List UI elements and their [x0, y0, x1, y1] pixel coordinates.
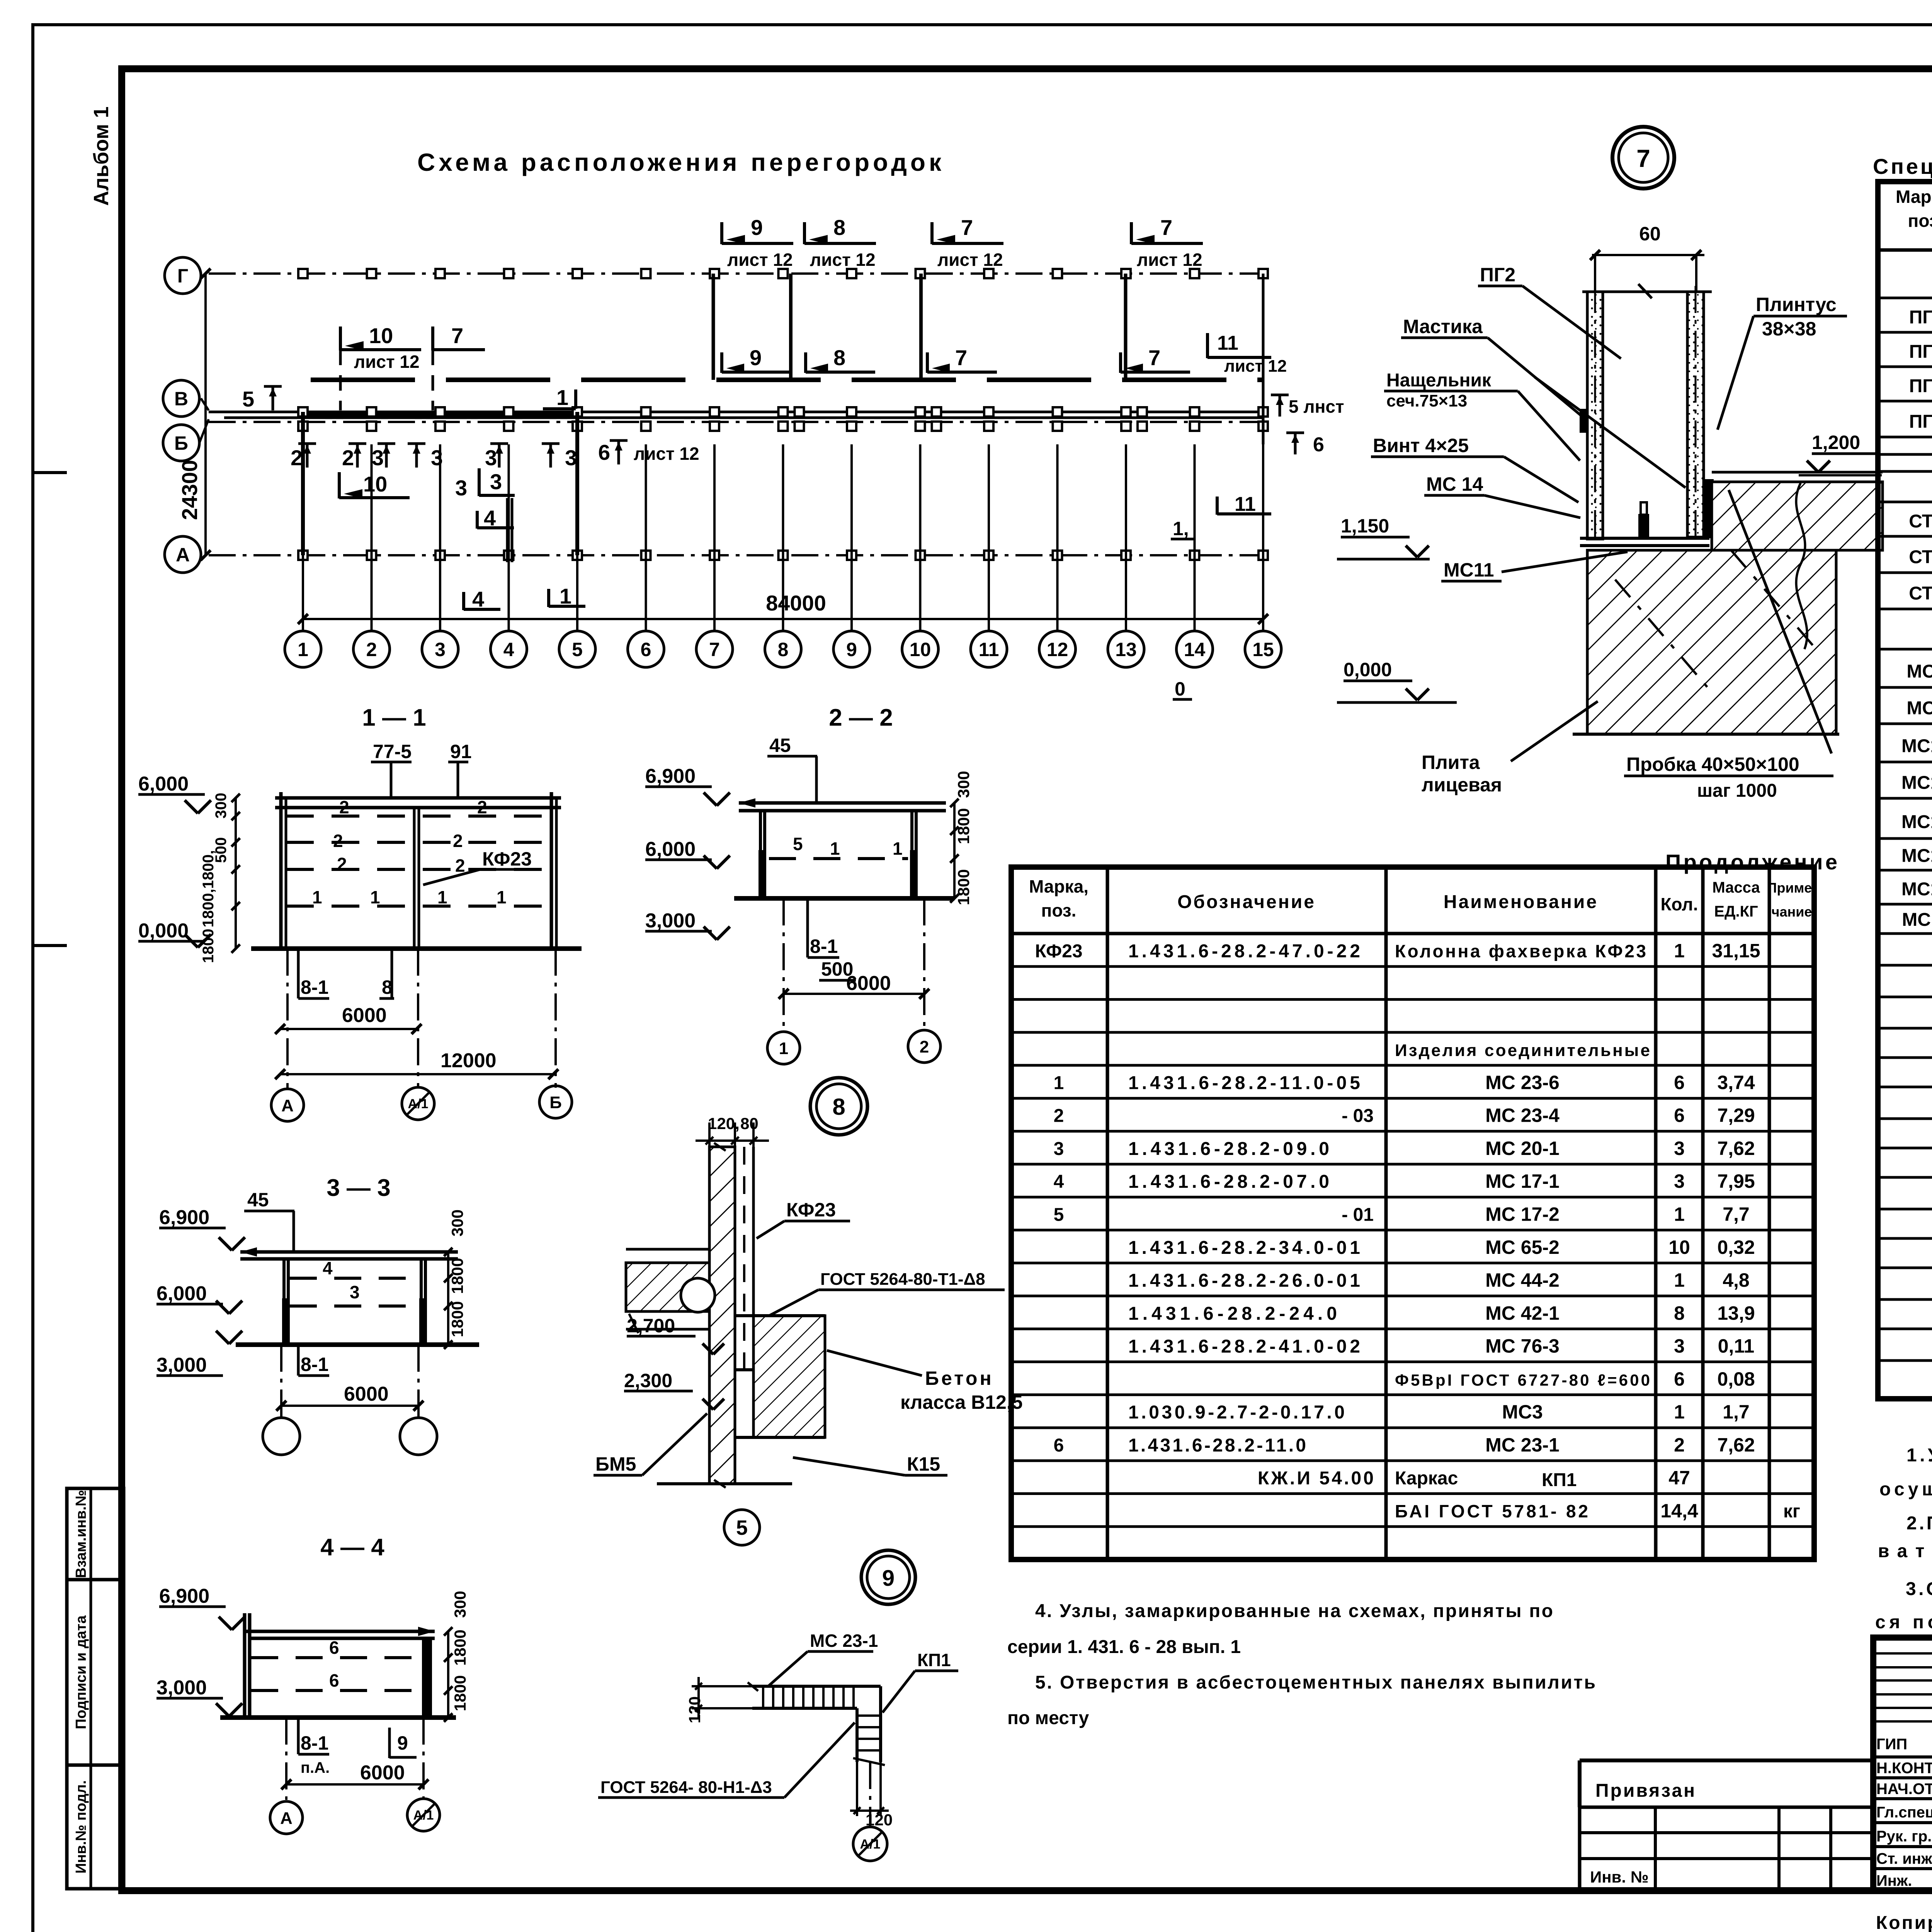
svg-text:Бетон: Бетон	[925, 1367, 994, 1389]
svg-text:1,: 1,	[1173, 518, 1189, 539]
svg-text:МС18: МС18	[1901, 879, 1932, 900]
svg-text:1: 1	[779, 1039, 788, 1058]
svg-text:КП1: КП1	[1542, 1470, 1577, 1490]
svg-text:4: 4	[323, 1258, 333, 1278]
svg-text:1800: 1800	[451, 1629, 469, 1665]
svg-text:3 — 3: 3 — 3	[327, 1175, 390, 1201]
svg-text:7,29: 7,29	[1717, 1105, 1755, 1126]
svg-text:9: 9	[882, 1566, 895, 1591]
svg-text:8: 8	[833, 345, 845, 370]
svg-text:4,8: 4,8	[1723, 1269, 1750, 1291]
svg-text:шаг 1000: шаг 1000	[1697, 781, 1777, 801]
svg-text:МС 23-6: МС 23-6	[1485, 1071, 1560, 1093]
svg-text:7: 7	[1636, 145, 1650, 172]
svg-text:10: 10	[1668, 1236, 1690, 1258]
svg-text:6: 6	[1054, 1435, 1064, 1456]
svg-text:МС16: МС16	[1901, 812, 1932, 832]
svg-text:А: А	[176, 544, 190, 566]
svg-text:2: 2	[366, 639, 377, 660]
svg-text:300: 300	[213, 793, 230, 819]
svg-text:3: 3	[1054, 1139, 1064, 1159]
svg-text:6: 6	[1313, 434, 1324, 456]
svg-text:4: 4	[1054, 1172, 1064, 1192]
svg-text:Мастика: Мастика	[1403, 316, 1483, 337]
svg-text:Винт 4×25: Винт 4×25	[1373, 435, 1469, 456]
svg-text:1: 1	[893, 838, 903, 859]
svg-text:Привязан: Привязан	[1595, 1781, 1696, 1801]
svg-text:1,200: 1,200	[1812, 432, 1860, 453]
svg-text:24300: 24300	[177, 460, 202, 520]
svg-text:КФ23: КФ23	[786, 1199, 836, 1221]
svg-text:7,62: 7,62	[1717, 1138, 1755, 1159]
svg-text:7,7: 7,7	[1723, 1203, 1750, 1225]
svg-text:поз.: поз.	[1041, 900, 1077, 920]
svg-text:лист 12: лист 12	[937, 250, 1003, 270]
svg-text:5: 5	[572, 639, 583, 660]
svg-text:1.431.6-28.2-24.0: 1.431.6-28.2-24.0	[1128, 1303, 1337, 1324]
svg-text:Схема расположения перегородок: Схема расположения перегородок	[417, 148, 947, 176]
svg-text:1: 1	[437, 887, 447, 907]
svg-text:10: 10	[363, 472, 387, 496]
svg-text:Обозначение: Обозначение	[1177, 892, 1316, 912]
svg-text:МС17: МС17	[1901, 846, 1932, 866]
svg-text:6,900: 6,900	[159, 1206, 209, 1229]
svg-text:2,700: 2,700	[627, 1315, 675, 1337]
svg-text:0,000: 0,000	[138, 920, 189, 942]
svg-text:7: 7	[709, 639, 720, 660]
svg-text:10: 10	[369, 323, 393, 348]
svg-text:14: 14	[1184, 639, 1206, 660]
svg-text:6000: 6000	[344, 1383, 389, 1405]
svg-text:1: 1	[1674, 1269, 1685, 1291]
svg-text:0: 0	[1175, 678, 1185, 700]
svg-text:80: 80	[740, 1114, 759, 1133]
svg-text:1: 1	[370, 887, 380, 907]
svg-text:13,9: 13,9	[1717, 1302, 1755, 1324]
svg-text:Спецификация элементов к схема: Спецификация элементов к схемам располож…	[1873, 154, 1932, 179]
svg-text:лист 12: лист 12	[1137, 250, 1202, 270]
svg-text:НАЧ.ОТД: НАЧ.ОТД	[1876, 1781, 1932, 1798]
svg-text:2: 2	[333, 831, 343, 851]
svg-text:по месту: по месту	[1007, 1708, 1089, 1728]
svg-text:5. Отверстия в асбестоцемент: 5. Отверстия в асбестоцементных панелях …	[1035, 1672, 1595, 1693]
svg-text:МС 17-1: МС 17-1	[1485, 1170, 1560, 1192]
svg-text:лист 12: лист 12	[1224, 357, 1287, 376]
svg-text:МС 44-2: МС 44-2	[1485, 1269, 1560, 1291]
svg-text:МС 20-1: МС 20-1	[1485, 1138, 1560, 1159]
svg-text:6,000: 6,000	[138, 773, 189, 795]
svg-text:2: 2	[1054, 1106, 1064, 1126]
svg-text:МС9: МС9	[1906, 698, 1932, 719]
svg-text:МС 76-3: МС 76-3	[1485, 1335, 1560, 1357]
svg-text:7: 7	[955, 345, 967, 370]
svg-text:7,95: 7,95	[1717, 1170, 1755, 1192]
svg-text:ГОСТ 5264-80-Т1-Δ8: ГОСТ 5264-80-Т1-Δ8	[820, 1270, 985, 1289]
svg-text:МС14: МС14	[1901, 736, 1932, 756]
svg-text:77-5: 77-5	[373, 741, 412, 762]
svg-text:поз.: поз.	[1908, 211, 1932, 231]
svg-text:300: 300	[954, 771, 973, 798]
svg-text:2: 2	[337, 854, 347, 874]
svg-text:4 — 4: 4 — 4	[320, 1534, 384, 1561]
svg-text:Каркас: Каркас	[1395, 1468, 1458, 1489]
svg-text:9: 9	[397, 1732, 408, 1754]
svg-text:13: 13	[1115, 639, 1137, 660]
svg-text:9: 9	[846, 639, 857, 660]
svg-text:6: 6	[1674, 1105, 1685, 1126]
svg-text:1800,: 1800,	[200, 850, 217, 889]
svg-text:12: 12	[1047, 639, 1068, 660]
svg-text:ПГ2: ПГ2	[1480, 264, 1515, 286]
svg-text:МС 23-1: МС 23-1	[1485, 1434, 1560, 1456]
svg-text:- 01: - 01	[1342, 1204, 1374, 1225]
svg-text:45: 45	[247, 1189, 269, 1211]
svg-text:ватными плитами по ГОСТ: ватными плитами по ГОСТ 9573- 82.	[1878, 1541, 1932, 1561]
svg-text:1,150: 1,150	[1341, 515, 1389, 537]
svg-text:6: 6	[329, 1638, 339, 1658]
svg-text:60: 60	[1639, 223, 1661, 245]
svg-text:3: 3	[431, 446, 443, 470]
svg-text:1800,: 1800,	[200, 889, 217, 927]
svg-text:2: 2	[339, 797, 349, 817]
svg-text:1800: 1800	[451, 1675, 469, 1711]
svg-text:15: 15	[1252, 639, 1274, 660]
svg-text:1 — 1: 1 — 1	[362, 704, 426, 731]
svg-text:7: 7	[1148, 345, 1160, 370]
svg-text:БМ5: БМ5	[595, 1453, 636, 1475]
svg-text:А: А	[280, 1809, 293, 1828]
svg-text:Альбом 1: Альбом 1	[90, 106, 113, 206]
svg-text:1.431.6-28.2-09.0: 1.431.6-28.2-09.0	[1128, 1139, 1329, 1159]
svg-text:300: 300	[451, 1591, 469, 1618]
svg-text:3: 3	[565, 446, 577, 470]
svg-text:МС11: МС11	[1444, 559, 1494, 581]
svg-text:Н.КОНТР.: Н.КОНТР.	[1876, 1760, 1932, 1777]
svg-text:МС 65-2: МС 65-2	[1485, 1236, 1560, 1258]
svg-text:Марка,: Марка,	[1896, 187, 1932, 207]
svg-text:лист 12: лист 12	[727, 250, 793, 270]
svg-text:СТ2: СТ2	[1909, 547, 1932, 568]
svg-text:КФ23: КФ23	[1035, 941, 1082, 961]
svg-text:МС 14: МС 14	[1426, 473, 1483, 495]
svg-text:5: 5	[242, 387, 254, 411]
svg-text:3,000: 3,000	[645, 910, 696, 932]
svg-text:К15: К15	[907, 1453, 940, 1475]
svg-text:КЖ.И 54.00: КЖ.И 54.00	[1258, 1468, 1374, 1489]
svg-text:2: 2	[453, 831, 463, 851]
svg-text:В: В	[174, 388, 188, 410]
svg-text:2: 2	[477, 797, 487, 817]
svg-text:8-1: 8-1	[810, 935, 838, 957]
svg-text:Рук. гр.: Рук. гр.	[1876, 1828, 1932, 1845]
svg-text:1: 1	[1054, 1073, 1064, 1093]
svg-text:лицевая: лицевая	[1422, 774, 1502, 796]
svg-text:1: 1	[298, 639, 308, 660]
svg-text:3: 3	[490, 469, 502, 494]
svg-text:1: 1	[830, 838, 840, 859]
svg-text:КФ23: КФ23	[482, 848, 532, 870]
svg-text:6000: 6000	[360, 1762, 405, 1784]
svg-text:8: 8	[778, 639, 789, 660]
svg-text:6,000: 6,000	[645, 838, 696, 861]
svg-text:Приме-: Приме-	[1767, 880, 1817, 896]
svg-text:Инв.№ подл.: Инв.№ подл.	[73, 1780, 89, 1874]
svg-text:9: 9	[751, 215, 763, 240]
svg-text:Наименование: Наименование	[1444, 892, 1598, 912]
svg-text:5: 5	[793, 834, 803, 854]
svg-text:45: 45	[769, 735, 791, 756]
svg-text:3: 3	[1674, 1138, 1685, 1159]
svg-text:6: 6	[598, 440, 610, 464]
svg-text:1: 1	[1674, 1203, 1685, 1225]
svg-text:класса В12,5: класса В12,5	[900, 1391, 1023, 1413]
svg-text:2: 2	[1674, 1434, 1685, 1456]
svg-text:Ст. инж: Ст. инж	[1876, 1850, 1932, 1867]
svg-text:- 03: - 03	[1342, 1106, 1374, 1126]
svg-text:8: 8	[1674, 1302, 1685, 1324]
svg-text:МС 23-4: МС 23-4	[1485, 1105, 1560, 1126]
svg-text:0,000: 0,000	[1344, 659, 1392, 680]
svg-text:1.431.6-28.2-07.0: 1.431.6-28.2-07.0	[1128, 1172, 1329, 1192]
svg-text:Копировал Семахина: Копировал Семахина	[1876, 1913, 1932, 1932]
svg-text:ГОСТ 5264- 80-Н1-Δ3: ГОСТ 5264- 80-Н1-Δ3	[600, 1778, 772, 1797]
svg-text:МС 23-1: МС 23-1	[810, 1631, 878, 1651]
svg-text:6: 6	[1674, 1368, 1685, 1390]
svg-text:Нащельник: Нащельник	[1386, 370, 1492, 391]
svg-text:11: 11	[979, 639, 999, 660]
svg-text:300: 300	[448, 1209, 466, 1236]
svg-text:1800: 1800	[954, 808, 973, 844]
svg-text:6,900: 6,900	[159, 1585, 209, 1607]
svg-text:6: 6	[641, 639, 651, 660]
svg-text:5: 5	[1054, 1204, 1064, 1225]
svg-text:1: 1	[556, 385, 568, 410]
svg-text:3.Стальные элементы перегоро: 3.Стальные элементы перегородок покрыть …	[1906, 1579, 1932, 1599]
svg-text:7: 7	[451, 323, 463, 348]
svg-text:Б: Б	[174, 432, 188, 454]
svg-text:12000: 12000	[440, 1049, 497, 1072]
svg-text:6: 6	[1674, 1071, 1685, 1093]
svg-text:1: 1	[1674, 940, 1685, 961]
svg-text:6,000: 6,000	[156, 1282, 207, 1305]
svg-text:5: 5	[736, 1516, 748, 1539]
svg-text:ся покрытием ВПМ-2 толщиной: ся покрытием ВПМ-2 толщиной 4 мм по ГОСТ…	[1875, 1612, 1932, 1633]
svg-text:Взам.инв.№: Взам.инв.№	[73, 1490, 89, 1578]
svg-text:МС 42-1: МС 42-1	[1485, 1302, 1560, 1324]
svg-text:0,11: 0,11	[1718, 1335, 1755, 1357]
svg-text:Плинтус: Плинтус	[1756, 294, 1837, 315]
svg-text:1: 1	[497, 887, 507, 907]
svg-text:5 лнст: 5 лнст	[1289, 396, 1344, 417]
svg-text:9: 9	[750, 345, 762, 370]
svg-text:120: 120	[685, 1696, 704, 1723]
svg-text:КП1: КП1	[917, 1650, 951, 1670]
svg-text:ЕД.КГ: ЕД.КГ	[1714, 903, 1758, 920]
svg-text:8-1: 8-1	[301, 1354, 328, 1375]
svg-text:п.А.: п.А.	[301, 1759, 330, 1776]
svg-text:3: 3	[455, 476, 467, 500]
svg-text:МС11: МС11	[1902, 910, 1932, 930]
svg-text:8: 8	[833, 215, 845, 240]
svg-text:1.431.6-28.2-11.0: 1.431.6-28.2-11.0	[1128, 1435, 1306, 1456]
svg-text:4: 4	[472, 587, 484, 611]
svg-text:8: 8	[832, 1094, 845, 1120]
svg-text:2: 2	[920, 1037, 929, 1056]
svg-text:чание: чание	[1772, 904, 1812, 920]
svg-text:38×38: 38×38	[1762, 318, 1816, 340]
svg-text:0,08: 0,08	[1717, 1368, 1755, 1390]
svg-text:А: А	[281, 1096, 294, 1115]
svg-text:2: 2	[342, 446, 354, 470]
svg-text:3: 3	[350, 1282, 360, 1302]
svg-text:6000: 6000	[846, 972, 891, 995]
svg-text:ПГ3: ПГ3	[1909, 376, 1932, 396]
svg-text:МС14: МС14	[1901, 773, 1932, 793]
svg-text:Г: Г	[177, 265, 188, 287]
svg-text:1800: 1800	[200, 929, 217, 963]
svg-text:11: 11	[1217, 332, 1238, 354]
svg-text:МС 17-2: МС 17-2	[1485, 1203, 1560, 1225]
svg-text:Ф5ВрI ГОСТ 6727-80 ℓ=600: Ф5ВрI ГОСТ 6727-80 ℓ=600	[1395, 1371, 1650, 1389]
svg-text:лист 12: лист 12	[354, 352, 420, 372]
svg-text:84000: 84000	[766, 591, 826, 615]
svg-text:3,74: 3,74	[1717, 1071, 1755, 1093]
svg-text:Масса: Масса	[1712, 879, 1760, 896]
svg-text:МС5: МС5	[1906, 661, 1932, 682]
svg-text:Колонна фахверка КФ23: Колонна фахверка КФ23	[1395, 941, 1646, 961]
svg-text:Инв. №: Инв. №	[1590, 1868, 1649, 1886]
svg-text:Подписи и дата: Подписи и дата	[73, 1615, 89, 1729]
svg-text:4: 4	[484, 506, 496, 530]
svg-text:1,7: 1,7	[1723, 1401, 1750, 1423]
svg-text:1800: 1800	[954, 869, 973, 905]
svg-text:ГИП: ГИП	[1876, 1736, 1907, 1753]
svg-text:7: 7	[1160, 215, 1172, 240]
svg-text:6,900: 6,900	[645, 765, 696, 787]
svg-text:8-1: 8-1	[301, 1732, 328, 1754]
svg-text:ПГ1: ПГ1	[1909, 307, 1932, 328]
svg-text:3: 3	[435, 639, 446, 660]
svg-text:3,000: 3,000	[156, 1677, 207, 1699]
svg-text:Инж.: Инж.	[1876, 1872, 1912, 1889]
svg-text:СТ3: СТ3	[1909, 583, 1932, 604]
svg-text:кг: кг	[1783, 1501, 1800, 1522]
svg-text:0,32: 0,32	[1717, 1236, 1755, 1258]
svg-text:серии 1. 431. 6 - 28 вып. 1: серии 1. 431. 6 - 28 вып. 1	[1007, 1637, 1241, 1657]
svg-text:Пробка 40×50×100: Пробка 40×50×100	[1626, 753, 1799, 775]
svg-text:3: 3	[1674, 1335, 1685, 1357]
svg-text:1: 1	[560, 584, 571, 608]
svg-text:8-1: 8-1	[301, 976, 328, 998]
svg-text:1: 1	[312, 887, 322, 907]
svg-text:6: 6	[329, 1670, 339, 1690]
svg-text:2,300: 2,300	[624, 1370, 672, 1391]
svg-text:лист 12: лист 12	[810, 250, 876, 270]
svg-text:Б: Б	[549, 1093, 562, 1112]
svg-text:лист 12: лист 12	[634, 444, 699, 464]
svg-text:2: 2	[291, 446, 303, 470]
svg-text:Марка,: Марка,	[1029, 876, 1088, 896]
svg-text:3: 3	[485, 446, 497, 470]
svg-text:31,15: 31,15	[1712, 940, 1760, 961]
svg-text:3: 3	[1674, 1170, 1685, 1192]
svg-text:Гл.спец: Гл.спец	[1876, 1804, 1932, 1821]
svg-text:4. Узлы, замаркированные на: 4. Узлы, замаркированные на схемах, прин…	[1035, 1601, 1553, 1621]
svg-text:3,000: 3,000	[156, 1354, 207, 1376]
svg-text:6000: 6000	[342, 1004, 387, 1027]
svg-text:10: 10	[910, 639, 931, 660]
svg-text:1800: 1800	[448, 1301, 466, 1337]
svg-text:ПГ2: ПГ2	[1909, 342, 1932, 362]
svg-text:3: 3	[372, 446, 384, 470]
svg-text:2 — 2: 2 — 2	[829, 704, 893, 731]
svg-text:1: 1	[1674, 1401, 1685, 1423]
svg-text:47: 47	[1668, 1467, 1690, 1489]
svg-text:МС3: МС3	[1502, 1401, 1543, 1423]
svg-text:2.Пустоты асбестоцементных пан: 2.Пустоты асбестоцементных панелей запол…	[1906, 1513, 1932, 1534]
svg-text:7: 7	[961, 215, 973, 240]
svg-text:1800: 1800	[448, 1258, 466, 1294]
svg-text:7,62: 7,62	[1717, 1434, 1755, 1456]
svg-text:Кол.: Кол.	[1660, 894, 1698, 914]
svg-text:4: 4	[503, 639, 514, 660]
svg-text:Плита: Плита	[1422, 752, 1480, 773]
svg-text:СТ1: СТ1	[1909, 511, 1932, 532]
svg-text:91: 91	[450, 741, 472, 762]
svg-text:11: 11	[1235, 493, 1256, 515]
svg-text:сеч.75×13: сеч.75×13	[1386, 391, 1467, 410]
svg-text:ПГ4: ПГ4	[1909, 412, 1932, 432]
svg-text:14,4: 14,4	[1660, 1500, 1698, 1522]
